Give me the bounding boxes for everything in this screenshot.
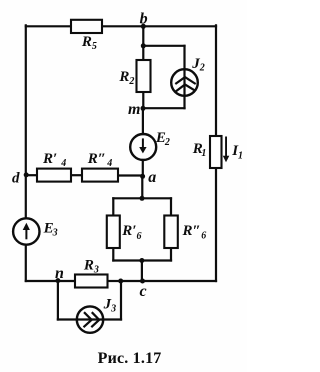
wire left lower (E3 to bottom-left corner) [25, 245, 27, 281]
R6-loop top junction (dot) [140, 196, 145, 201]
resistor R1 [210, 136, 222, 168]
wire top-mid (R5 to node b) [102, 25, 143, 27]
svg-text:R1: R1 [192, 141, 207, 159]
wire R6-loop left lower [112, 248, 114, 261]
wire node m to E2 [142, 108, 144, 134]
wire down to J2 [183, 46, 185, 70]
svg-text:n: n [55, 265, 64, 282]
node n (dot) [55, 278, 60, 283]
resistor R3 [75, 275, 108, 288]
R6-loop bottom junction (dot) [139, 258, 144, 263]
node a (dot) [140, 174, 145, 179]
svg-text:d: d [12, 171, 20, 187]
EMF source E3 (circle) [13, 218, 39, 244]
resistor R2 [137, 60, 151, 92]
wire J3 shaft through circle [77, 318, 103, 320]
resistor R5 [71, 20, 102, 33]
node b (dot) [141, 24, 146, 29]
svg-text:R′4: R′4 [42, 151, 66, 169]
wire node a down to R6-loop top [141, 176, 143, 198]
wire node n to R3 [58, 280, 75, 282]
EMF E2 arrow (down) [142, 138, 144, 148]
svg-text:R′6: R′6 [121, 223, 141, 242]
wire R6-loop left upper [112, 198, 114, 215]
EMF E3 arrow (up) [25, 229, 27, 239]
wire E2 to node a [142, 160, 144, 176]
wire R6-loop right lower [170, 248, 172, 261]
junction right of R3 (dot) [118, 279, 123, 284]
resistor R''6 [164, 216, 178, 249]
current I1 arrow (down) [225, 137, 227, 157]
current source J3 double arrowhead (right) [84, 312, 100, 327]
svg-text:m: m [128, 101, 140, 118]
current source J2 (circle) [171, 69, 198, 96]
wire right lower (R1 to bottom-right corner) [215, 168, 217, 281]
svg-text:J2: J2 [191, 56, 205, 73]
wire node n down to J3 branch [57, 281, 59, 320]
EMF source E2 (circle) [130, 134, 156, 160]
wire right upper (corner to R1) [215, 25, 217, 136]
wire J2 shaft through circle [183, 70, 185, 96]
wire top-right (node b to top-right corner) [143, 25, 216, 27]
wire R''4 to node a [118, 174, 143, 176]
wire R6-loop to node c [141, 261, 143, 282]
resistor R''4 [82, 169, 118, 182]
wire R6-loop bottom [113, 259, 171, 261]
svg-text:R3: R3 [83, 258, 99, 276]
svg-text:Рис. 1.17: Рис. 1.17 [98, 350, 162, 367]
svg-text:c: c [140, 283, 147, 300]
wire bottom-left (corner to node n) [26, 280, 58, 282]
wire node d to R'4 [26, 174, 37, 176]
resistor R'6 [107, 216, 120, 249]
wire R2 to node m [142, 92, 144, 108]
svg-text:J3: J3 [103, 296, 117, 314]
wire J3 branch up to junction [120, 281, 122, 320]
node c (dot) [140, 279, 145, 284]
wire R6-loop top [113, 197, 171, 199]
wire J2 branch horizontal from junction [143, 45, 184, 47]
wire between R'4 and R''4 [71, 174, 82, 176]
svg-text:I1: I1 [231, 143, 243, 162]
resistor R'4 [37, 169, 71, 182]
wire J2 branch back to node m [143, 107, 184, 109]
current source J2 double arrowhead (up) [175, 77, 195, 91]
wire J3 branch to J3 [58, 318, 77, 320]
svg-text:R″4: R″4 [87, 151, 112, 169]
svg-text:E3: E3 [43, 221, 58, 239]
wire J3 to right corner of branch [103, 318, 122, 320]
wire R3 to junction right of R3 [108, 280, 121, 282]
wire node b down to J2-branch junction [142, 26, 144, 46]
wire J2 to corner below [183, 96, 185, 109]
svg-text:E2: E2 [155, 130, 170, 148]
svg-text:b: b [140, 10, 148, 27]
wire junction to node c [121, 280, 143, 282]
node m (dot) [141, 106, 146, 111]
wire bottom-right (corner to node c) [143, 280, 217, 282]
node d (dot) [24, 172, 29, 177]
svg-text:R″6: R″6 [182, 223, 207, 242]
wire left upper (corner to E3) [25, 25, 27, 218]
svg-text:R2: R2 [118, 69, 134, 87]
svg-text:a: a [148, 169, 156, 186]
svg-text:R5: R5 [81, 34, 97, 52]
wire top-left (corner to R5) [26, 25, 71, 27]
junction below b (dot) [141, 43, 146, 48]
wire junction to R2 [142, 46, 144, 60]
current source J3 (circle) [77, 306, 103, 332]
wire R6-loop right upper [170, 198, 172, 215]
